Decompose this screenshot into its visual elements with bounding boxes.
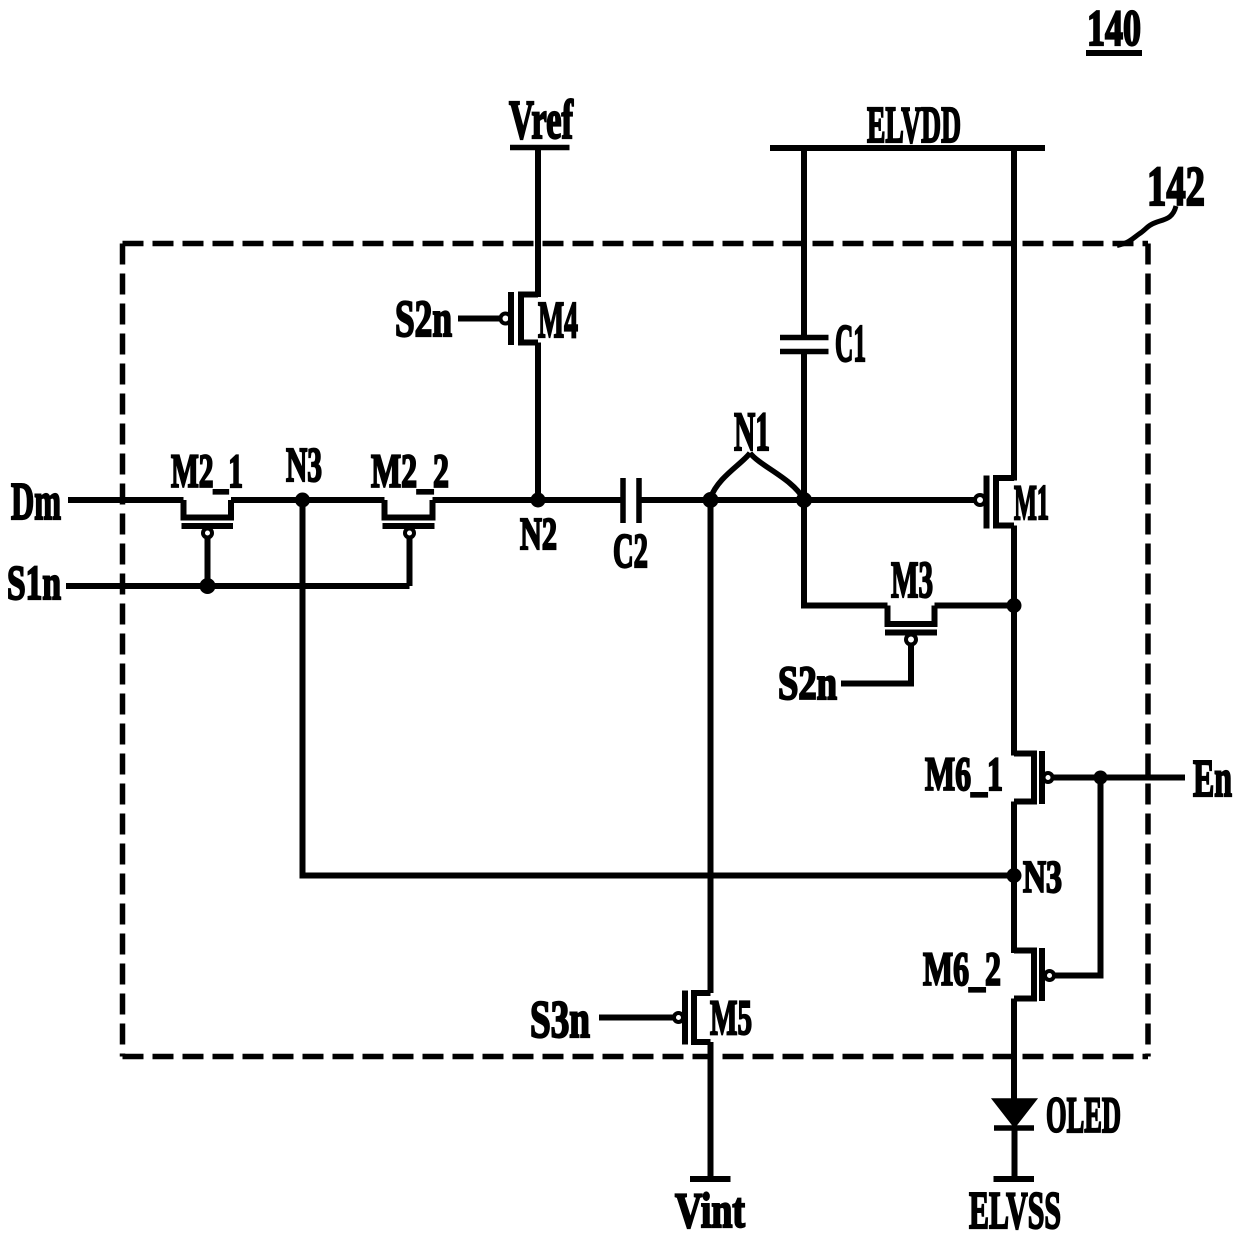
svg-text:N2: N2: [520, 508, 557, 559]
label S3n: [530, 991, 590, 1049]
label N3: [286, 437, 322, 492]
wire M1 drain down: [1011, 526, 1017, 756]
label M2_2: [371, 445, 449, 498]
wire M6_1 drain to N3: [1011, 802, 1017, 954]
node N1 right junction dot: [796, 492, 812, 508]
transistor M4: [458, 292, 538, 345]
wire En lead: [1053, 775, 1186, 781]
junction dot on En lead: [1094, 771, 1108, 785]
svg-text:N3: N3: [286, 437, 322, 492]
label M5: [710, 989, 752, 1045]
svg-text:140: 140: [1087, 1, 1141, 57]
svg-text:M1: M1: [1014, 474, 1049, 530]
wire Vref vertical to M4: [535, 148, 541, 298]
net label S1n: [7, 557, 61, 610]
transistor M5: [599, 991, 711, 1045]
net label En: [1193, 750, 1232, 808]
wire M5 to Vint: [708, 1042, 714, 1176]
label M3: [891, 552, 933, 609]
svg-text:OLED: OLED: [1046, 1088, 1121, 1144]
node N3 junction dot: [295, 493, 310, 508]
label N3 (right): [1023, 852, 1062, 902]
label C2: [613, 523, 648, 578]
svg-text:N3: N3: [1023, 852, 1062, 902]
net label Vref: [509, 89, 573, 150]
transistor M6_2: [1014, 948, 1054, 1001]
transistor M2_1: [182, 500, 234, 586]
wire N3 net long run: [303, 500, 1015, 876]
net label Dm: [11, 473, 61, 531]
transistor M3: [841, 606, 937, 684]
wire N1 to M5: [708, 500, 714, 993]
label C1: [835, 315, 866, 373]
net label ELVDD: [867, 97, 961, 154]
capacitor C1: [780, 338, 829, 352]
transistor M2_2: [383, 500, 435, 586]
wire ELVDD to C1: [801, 148, 807, 336]
wire ELVDD to M1 source: [1011, 148, 1017, 481]
label N1: [734, 401, 770, 462]
wire M2_1 to N3: [231, 497, 385, 503]
svg-text:M6_2: M6_2: [923, 943, 1001, 996]
label S2n (gate of M4): [395, 291, 452, 348]
Vint terminal bar: [690, 1176, 731, 1182]
junction dot M3 drain: [1007, 598, 1022, 613]
svg-text:C1: C1: [835, 315, 866, 373]
wire Dm input: [68, 497, 184, 503]
ELVDD supply bar: [770, 145, 1045, 151]
svg-text:S3n: S3n: [530, 991, 590, 1049]
wire C1 bottom to N1: [801, 354, 807, 501]
label N2: [520, 508, 557, 559]
svg-text:M3: M3: [891, 552, 933, 609]
transistor M1: [975, 476, 1014, 529]
node N3 right junction dot: [1007, 868, 1022, 883]
wire S1n: [66, 583, 410, 589]
net label ELVSS: [969, 1182, 1061, 1233]
label OLED: [1046, 1088, 1121, 1144]
wire En dot down to M6_2 gate: [1055, 778, 1101, 976]
ELVSS terminal bar: [994, 1176, 1035, 1182]
wire N1 down to M3: [804, 500, 888, 606]
leader line to 142: [1117, 206, 1176, 246]
diode OLED: [994, 1100, 1036, 1129]
wire OLED to ELVSS: [1012, 1131, 1018, 1177]
svg-text:S2n: S2n: [395, 291, 452, 348]
node N2 junction dot: [531, 493, 546, 508]
wire M6_2 drain down: [1011, 999, 1017, 1100]
label M6_1: [925, 748, 1003, 801]
svg-text:Dm: Dm: [11, 473, 61, 531]
dashed pixel boundary box 142: [123, 244, 1149, 1057]
svg-text:C2: C2: [613, 523, 648, 578]
svg-text:Vref: Vref: [509, 89, 573, 150]
svg-text:ELVSS: ELVSS: [969, 1182, 1061, 1233]
label M2_1: [171, 445, 243, 498]
svg-text:M2_2: M2_2: [371, 445, 449, 498]
node N1 left junction dot: [703, 492, 719, 508]
figure label 140: [1086, 1, 1142, 57]
svg-text:M5: M5: [710, 989, 752, 1045]
wire C2 to M1 gate: [642, 497, 976, 503]
svg-text:En: En: [1193, 750, 1232, 808]
wire M2_2 to N2: [433, 497, 621, 503]
wire M4 drain to N2: [535, 343, 541, 501]
label M6_2: [923, 943, 1001, 996]
reference label 142: [1147, 156, 1205, 218]
net label Vint: [675, 1182, 745, 1233]
svg-text:Vint: Vint: [675, 1182, 745, 1233]
svg-text:M4: M4: [538, 292, 578, 349]
capacitor C2: [623, 478, 639, 523]
svg-text:M2_1: M2_1: [171, 445, 243, 498]
svg-text:M6_1: M6_1: [925, 748, 1003, 801]
Vref terminal bar: [510, 145, 570, 151]
wire M3 to M1 drain: [935, 603, 1015, 609]
svg-text:S2n: S2n: [778, 657, 837, 710]
label M4: [538, 292, 578, 349]
N1 pointer curves: [711, 453, 804, 499]
transistor M6_1: [1014, 751, 1053, 804]
junction dot S1n / M2_1 gate: [200, 578, 216, 594]
svg-text:S1n: S1n: [7, 557, 61, 610]
label S2n (gate of M3): [778, 657, 837, 710]
label M1: [1014, 474, 1049, 530]
